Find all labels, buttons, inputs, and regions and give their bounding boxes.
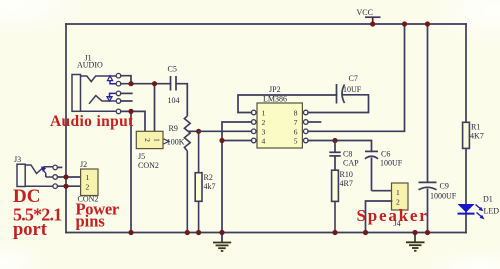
svg-text:CON2: CON2 bbox=[138, 161, 159, 170]
svg-text:2: 2 bbox=[143, 138, 152, 142]
wire right frame vertical bbox=[465, 24, 467, 233]
node signal junction bbox=[128, 81, 133, 86]
capacitor C5 bbox=[171, 76, 188, 116]
node pin3 junction bbox=[196, 129, 201, 134]
wire pin1 gain to C7 bbox=[238, 95, 337, 113]
wire pin3 +in to R9 wiper bbox=[199, 130, 252, 132]
ground symbol 2 bbox=[406, 233, 425, 251]
node signal/J5 junction bbox=[152, 81, 157, 86]
wire J1 pin1 to signal net bbox=[121, 76, 131, 84]
node ground1 junction bbox=[219, 230, 224, 235]
svg-text:R10: R10 bbox=[340, 170, 353, 179]
svg-text:R9: R9 bbox=[169, 124, 178, 133]
svg-text:104: 104 bbox=[168, 96, 180, 105]
svg-text:AUDIO: AUDIO bbox=[77, 61, 103, 70]
capacitor C9 1000UF bbox=[419, 24, 437, 233]
R9 wiper to pin3 net bbox=[189, 130, 199, 132]
svg-text:5: 5 bbox=[294, 137, 298, 146]
svg-text:1: 1 bbox=[86, 173, 90, 182]
svg-text:LED: LED bbox=[484, 207, 500, 216]
svg-text:JP2: JP2 bbox=[269, 85, 281, 94]
node sleeve junction bbox=[128, 109, 133, 114]
svg-text:R2: R2 bbox=[204, 173, 213, 182]
svg-text:4k7: 4k7 bbox=[204, 182, 216, 191]
svg-text:C6: C6 bbox=[381, 150, 390, 159]
VCC power port bbox=[357, 8, 381, 24]
svg-text:VCC: VCC bbox=[357, 8, 373, 17]
wire pin6 VCC bbox=[308, 24, 404, 131]
svg-text:1000UF: 1000UF bbox=[430, 192, 457, 201]
wire signal branch to J5 pin1 bbox=[154, 84, 156, 132]
wire J3 pin1 stub bbox=[58, 166, 62, 168]
wire pin2 -in to ground bbox=[222, 122, 251, 233]
node VCC junction dot bbox=[370, 21, 375, 26]
svg-text:1: 1 bbox=[153, 138, 162, 142]
svg-text:C5: C5 bbox=[168, 65, 177, 74]
connector J2 CON2 power bbox=[78, 160, 99, 203]
resistor R1 4K7 bbox=[463, 122, 470, 148]
connector J4 speaker bbox=[392, 183, 409, 228]
svg-text:2: 2 bbox=[86, 182, 90, 191]
svg-text:J5: J5 bbox=[138, 152, 145, 161]
wire left frame vertical bbox=[65, 24, 67, 233]
svg-text:pins: pins bbox=[76, 211, 106, 230]
wire sleeve branch to J5 pin2 bbox=[131, 111, 145, 131]
svg-text:7: 7 bbox=[294, 118, 298, 127]
svg-text:C9: C9 bbox=[440, 182, 449, 191]
svg-text:2: 2 bbox=[262, 118, 266, 127]
jack tip contact bbox=[81, 76, 117, 82]
capacitor C7 10UF bbox=[337, 84, 345, 104]
node J2 pin1 junction bbox=[63, 174, 68, 179]
node bus junction dots bbox=[128, 230, 133, 235]
resistor R9 100K pot bbox=[184, 116, 198, 233]
svg-text:Speaker: Speaker bbox=[357, 206, 429, 225]
node J2 pin2 junction bbox=[63, 184, 68, 189]
resistor R10 4R7 bbox=[332, 170, 339, 232]
jack ring switch arrow bbox=[110, 93, 117, 98]
ground symbol 1 bbox=[213, 233, 231, 252]
jack ring contact bbox=[89, 96, 116, 104]
svg-text:8: 8 bbox=[294, 109, 298, 118]
wire J4 pin2 to ground bbox=[366, 201, 392, 233]
svg-text:10UF: 10UF bbox=[343, 85, 362, 94]
jack tip switch arrow bbox=[110, 81, 116, 84]
wire C5 to R9 top bbox=[176, 84, 187, 116]
node ground2 junction bbox=[412, 230, 417, 235]
capacitor C6 100UF bbox=[365, 151, 392, 190]
svg-text:C7: C7 bbox=[349, 74, 358, 83]
wire J1 pin2 signal to C5 bbox=[121, 83, 171, 85]
svg-text:port: port bbox=[13, 220, 48, 240]
svg-text:1: 1 bbox=[262, 109, 266, 118]
svg-text:6: 6 bbox=[294, 127, 298, 136]
connector J1 audio jack body bbox=[72, 75, 116, 112]
svg-text:Audio input: Audio input bbox=[50, 113, 134, 130]
resistor R2 4k7 bbox=[195, 131, 202, 232]
svg-text:J2: J2 bbox=[80, 160, 87, 169]
R9 wiper arrow bbox=[164, 139, 170, 144]
J3 pin circles bbox=[53, 165, 58, 188]
wire J3 pin2 to J2 bbox=[58, 176, 81, 178]
wire J1 pin4 stub bbox=[121, 100, 132, 102]
svg-text:3: 3 bbox=[262, 127, 266, 136]
diode D1 LED bbox=[458, 195, 500, 220]
LM386 pin circles bbox=[251, 110, 308, 143]
svg-text:J3: J3 bbox=[14, 155, 21, 164]
wire J1 pin3 stub bbox=[121, 92, 132, 94]
wire J1 sleeve to ground bus bbox=[121, 111, 131, 232]
capacitor C8 CAP bbox=[329, 141, 340, 171]
op-amp U1 LM386 box bbox=[257, 85, 302, 148]
wire J3 pin3 to J2 bbox=[58, 185, 81, 187]
svg-text:R1: R1 bbox=[471, 123, 480, 132]
J1 pin circles bbox=[116, 73, 121, 113]
svg-text:D1: D1 bbox=[483, 195, 493, 204]
svg-text:4: 4 bbox=[262, 137, 266, 146]
svg-text:100UF: 100UF bbox=[380, 159, 403, 168]
wire pin8 gain to C7 bbox=[308, 95, 368, 113]
jack sleeve bbox=[81, 110, 117, 112]
svg-text:100K: 100K bbox=[167, 138, 185, 147]
wire VCC top rail bbox=[66, 23, 466, 25]
wire pin7 bypass stub bbox=[308, 121, 320, 123]
svg-text:4K7: 4K7 bbox=[470, 132, 484, 141]
node pin6 VCC junction bbox=[402, 21, 407, 26]
svg-text:CAP: CAP bbox=[343, 159, 359, 168]
wire C6 to J4 pin1 bbox=[372, 190, 392, 192]
node C9 VCC junction bbox=[425, 21, 430, 26]
svg-text:4R7: 4R7 bbox=[340, 179, 353, 188]
svg-text:C8: C8 bbox=[343, 150, 352, 159]
svg-text:1: 1 bbox=[396, 188, 400, 197]
svg-text:2: 2 bbox=[396, 198, 400, 207]
wire R9 bottom to bus bbox=[186, 151, 188, 233]
wire pin5 out bbox=[308, 141, 371, 152]
connector J3 DC jack bbox=[17, 164, 53, 186]
node pin4 junction bbox=[219, 138, 224, 143]
wire pin4 gnd bbox=[222, 140, 251, 142]
wire ground bus bottom bbox=[66, 232, 466, 234]
node out/C8 junction bbox=[332, 138, 337, 143]
connector J5 CON2 bbox=[136, 131, 163, 170]
